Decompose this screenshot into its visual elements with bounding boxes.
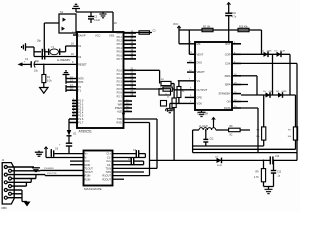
svg-text:R3 10k: R3 10k [203,26,211,28]
svg-text:R2OUT: R2OUT [102,177,111,181]
svg-text:AT89C51: AT89C51 [79,130,92,134]
svg-text:INT0: INT0 [78,77,84,81]
svg-text:P2.3: P2.3 [117,80,123,84]
svg-text:C2-: C2- [107,163,111,167]
svg-text:INPA: INPA [225,74,231,78]
svg-text:INT1: INT1 [78,80,84,84]
svg-text:VEXT: VEXT [197,52,204,56]
svg-text:P0.2: P0.2 [117,39,123,43]
svg-text:P0.5: P0.5 [117,50,123,54]
svg-text:TXD: TXD [117,117,122,121]
svg-text:V+: V+ [85,152,89,156]
svg-text:P2.1: P2.1 [117,72,123,76]
svg-text:MS: MS [197,42,201,46]
svg-text:C13: C13 [275,156,280,158]
svg-text:R10 43k: R10 43k [239,26,248,28]
svg-text:P0.4: P0.4 [117,46,123,50]
svg-text:L1 10uH: L1 10uH [199,126,208,128]
svg-text:DATA: DATA [224,106,231,110]
svg-text:ALE: ALE [117,110,122,114]
svg-text:CPE: CPE [197,96,203,100]
svg-text:4148: 4148 [269,91,275,93]
svg-text:T1IN: T1IN [105,167,111,171]
svg-text:VCC: VCC [85,159,91,163]
svg-text:R1IN: R1IN [85,174,91,178]
svg-text:VCC: VCC [95,34,101,38]
svg-text:MAX232CPE: MAX232CPE [84,187,102,191]
svg-text:8.2k: 8.2k [47,80,52,83]
svg-text:8C: 8C [230,134,233,136]
svg-text:4.7K: 4.7K [254,177,259,179]
svg-text:EA/VP: EA/VP [78,34,86,38]
svg-text:T1OUT: T1OUT [85,167,94,171]
svg-text:RESET: RESET [78,63,87,67]
svg-text:P2.7: P2.7 [117,94,123,98]
svg-text:P2.4: P2.4 [117,83,123,87]
svg-text:GND: GND [85,163,91,167]
svg-text:30p: 30p [35,60,40,63]
svg-text:0.1uF: 0.1uF [94,19,101,22]
svg-text:P2.6: P2.6 [117,91,123,95]
svg-text:P0.3: P0.3 [117,42,123,46]
svg-text:P2.0: P2.0 [117,68,123,72]
svg-text:COR: COR [225,52,231,56]
svg-text:4148: 4148 [280,50,286,52]
svg-text:VS: VS [197,79,201,83]
svg-text:R1OUT: R1OUT [102,174,111,178]
svg-text:V-: V- [85,156,88,160]
svg-text:4148: 4148 [267,50,273,52]
svg-text:ON: ON [227,100,231,104]
svg-text:VCC: VCC [173,23,178,26]
svg-text:T2OUT: T2OUT [85,170,94,174]
svg-text:COK: COK [225,62,231,66]
svg-text:10u: 10u [34,70,39,73]
svg-text:C2+: C2+ [106,159,111,163]
svg-text:VOK: VOK [197,102,203,106]
svg-text:RD: RD [118,99,122,103]
svg-text:OUTPUT: OUTPUT [197,88,208,92]
svg-text:P2.5: P2.5 [117,87,123,91]
svg-text:RXD: RXD [117,121,123,125]
svg-text:WR: WR [118,103,122,107]
svg-text:4148: 4148 [282,91,288,93]
svg-text:C1+: C1+ [106,152,111,156]
svg-text:VSS: VSS [109,34,114,38]
svg-text:P3.1/TXD: P3.1/TXD [47,173,57,175]
svg-text:R2IN: R2IN [85,177,91,181]
svg-text:P0.6: P0.6 [117,53,123,57]
svg-text:P0.0: P0.0 [117,31,123,35]
svg-text:T2IN: T2IN [105,170,111,174]
svg-text:DB9: DB9 [2,206,8,210]
svg-text:X1: X1 [78,44,82,48]
svg-text:VBATT: VBATT [197,70,206,74]
svg-text:P3.0/RXD: P3.0/RXD [44,168,54,170]
svg-text:P1.5: P1.5 [78,114,84,118]
svg-text:X2: X2 [78,55,82,59]
svg-text:PSEN: PSEN [115,106,122,110]
svg-text:P1.6: P1.6 [78,117,84,121]
svg-text:ISPA: ISPA [225,83,231,87]
svg-text:STANDBY: STANDBY [218,92,230,96]
svg-text:P0.7: P0.7 [117,57,123,61]
svg-text:P2.2: P2.2 [117,76,123,80]
svg-text:C12: C12 [277,172,282,174]
svg-text:P1.7: P1.7 [78,121,84,125]
svg-text:30p: 30p [37,39,42,42]
svg-text:DVS: DVS [197,61,203,65]
svg-text:4148: 4148 [217,165,223,167]
svg-text:P0.1: P0.1 [117,35,123,39]
svg-text:11.0592MHz: 11.0592MHz [57,59,71,62]
svg-text:4.7u: 4.7u [232,16,237,19]
svg-text:RST: RST [225,42,231,46]
svg-text:C1-: C1- [107,156,111,160]
